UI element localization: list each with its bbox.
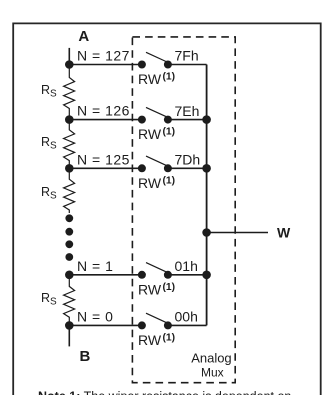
node N=0: [65, 321, 74, 330]
node N=1: [65, 271, 74, 280]
wire rung N=0: [69, 324, 142, 326]
svg-text:01h: 01h: [175, 258, 198, 274]
svg-text:7Eh: 7Eh: [175, 103, 200, 119]
wire rung N=127: [69, 64, 142, 66]
svg-text:W: W: [277, 225, 291, 241]
svg-text:B: B: [80, 348, 91, 365]
svg-text:N = 127: N = 127: [77, 48, 130, 64]
svg-text:RW: RW: [138, 281, 162, 297]
svg-text:N = 0: N = 0: [77, 308, 113, 324]
switch SW127: [138, 52, 172, 68]
bus junction 7Eh: [202, 115, 211, 124]
analog mux dashed box: [132, 37, 235, 383]
resistor RS2: [64, 120, 75, 169]
svg-text:N = 125: N = 125: [77, 151, 130, 167]
switch SW0: [138, 313, 172, 329]
switch SW125: [138, 156, 172, 172]
svg-text:7Fh: 7Fh: [175, 48, 199, 64]
svg-text:(1): (1): [163, 282, 176, 293]
wire B stem: [68, 325, 70, 346]
svg-text:(1): (1): [163, 127, 176, 138]
svg-text:(1): (1): [163, 175, 176, 186]
resistor RS4: [64, 275, 75, 326]
svg-text:Analog: Analog: [191, 351, 231, 366]
wiper bus: [206, 65, 208, 326]
ellipsis dots: [65, 214, 73, 260]
svg-text:00h: 00h: [175, 309, 198, 325]
wire A stem: [68, 48, 70, 65]
svg-text:N = 126: N = 126: [77, 103, 130, 119]
wire rung N=126: [69, 119, 142, 121]
wire sw1 to bus: [168, 274, 207, 276]
svg-text:RW: RW: [138, 126, 162, 142]
svg-text:Mux: Mux: [201, 366, 224, 380]
node N=126: [65, 115, 74, 124]
resistor RS1: [64, 65, 75, 120]
wire W output: [207, 232, 268, 234]
wire rung N=125: [69, 167, 142, 169]
resistor RS3: [64, 168, 75, 213]
svg-text:RW: RW: [138, 175, 162, 191]
wire rung N=1: [69, 274, 142, 276]
bus junction 7Dh: [202, 164, 211, 173]
svg-text:(1): (1): [163, 332, 176, 343]
svg-text:N = 1: N = 1: [77, 258, 113, 274]
wire sw125 to bus: [168, 167, 207, 169]
svg-text:RW: RW: [138, 71, 162, 87]
wire sw127 to bus: [168, 64, 207, 66]
bus junction 01h: [202, 271, 211, 280]
svg-text:(1): (1): [163, 72, 176, 83]
wire sw0 to bus: [168, 324, 207, 326]
switch SW1: [138, 263, 172, 279]
switch SW126: [138, 107, 172, 123]
svg-text:Note 1: The wiper resistance: Note 1: The wiper resistance is dependen…: [38, 389, 291, 395]
node N=125: [65, 164, 74, 173]
wire sw126 to bus: [168, 119, 207, 121]
node N=127: [65, 60, 74, 69]
svg-text:A: A: [78, 28, 89, 45]
svg-text:7Dh: 7Dh: [175, 152, 201, 168]
bus junction W: [202, 228, 211, 237]
svg-text:RW: RW: [138, 332, 162, 348]
